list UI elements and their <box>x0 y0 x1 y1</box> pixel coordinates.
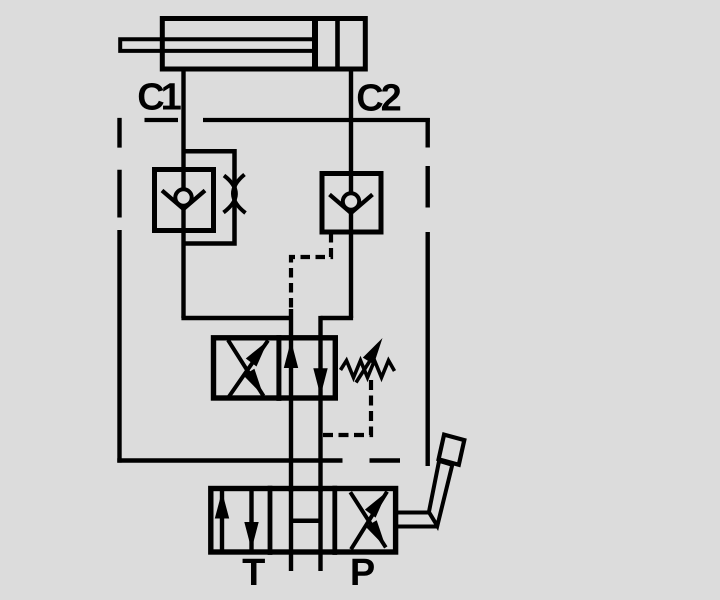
directional valve V1 outline <box>214 338 336 398</box>
enclosure right edge (dashed) <box>426 118 430 466</box>
enclosure top edge (dashed) <box>145 118 430 122</box>
pilot line (dashed) from port B to spring <box>323 380 372 435</box>
valve V1 divider <box>276 335 281 401</box>
spring on valve V1 <box>341 361 395 378</box>
svg-text:P: P <box>350 552 375 594</box>
adjustment arrow across spring <box>356 362 370 383</box>
wire horizontal to valve port A <box>181 316 291 320</box>
svg-text:T: T <box>242 552 265 594</box>
directional valve V2 outline <box>211 489 396 553</box>
valve V2 center H-bar (middle box) <box>291 519 321 524</box>
wire valve V1 to valve V2 (left) <box>289 396 293 492</box>
check valve CV2 seat V <box>330 195 373 214</box>
svg-text:C2: C2 <box>356 78 400 120</box>
check valve CV1 poppet ball <box>175 189 191 205</box>
lever link bar <box>396 513 437 527</box>
wire CV2 outlet down to corner <box>349 209 353 318</box>
wire C1 line (cylinder to check valve CV1) <box>181 69 185 190</box>
valve V2 port lines through middle box <box>289 489 293 572</box>
cylinder rod <box>120 39 315 51</box>
valve V2 up-arrow path (left box) <box>220 489 224 553</box>
cylinder body <box>162 19 365 70</box>
wire horizontal to valve port B <box>321 316 354 320</box>
valve V2 down-arrow path (left box) <box>249 489 253 553</box>
check valve CV2 poppet ball <box>343 193 359 209</box>
lever knob <box>439 435 465 465</box>
valve V1 up-arrow path (right box) <box>289 338 293 398</box>
valve V1 crossed-arrow X (left box) <box>228 340 268 397</box>
valve V2 divider 2 <box>332 486 337 555</box>
wire CV1 outlet down to junction <box>181 205 185 318</box>
check valve CV1 bypass loop <box>184 151 235 243</box>
valve V2 crossed-arrow X (right box) <box>350 492 387 550</box>
svg-text:C1: C1 <box>137 77 181 119</box>
cylinder piston <box>312 17 318 72</box>
valve V2 divider 1 <box>268 486 273 555</box>
wire valve port B vertical <box>318 316 322 340</box>
wire valve V1 to valve V2 (right) <box>318 396 322 492</box>
wire C2 line (cylinder to check valve CV2) <box>349 69 353 194</box>
pilot line (dashed) from CV2 to port A <box>291 233 331 309</box>
check valve CV2 body square <box>322 174 381 233</box>
lever shaft <box>429 461 452 526</box>
check valve CV1 seat V <box>162 191 205 210</box>
restrictor arcs on CV1 bypass <box>224 175 246 214</box>
enclosure left edge (dashed) <box>117 118 121 463</box>
wire valve port A vertical <box>289 309 293 340</box>
enclosure bottom edge (dashed) <box>117 458 400 462</box>
check valve CV1 body square <box>155 170 214 231</box>
valve V1 down-arrow path (right box) <box>318 338 322 398</box>
